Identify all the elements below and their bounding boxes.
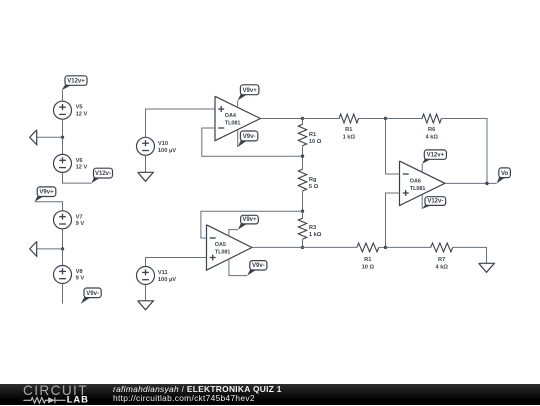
svg-text:V12v-: V12v- bbox=[95, 171, 111, 177]
net flag V12v+ bbox=[422, 150, 446, 164]
junction bbox=[384, 117, 387, 120]
junction bbox=[301, 155, 304, 158]
wire bbox=[62, 284, 64, 304]
op-amp OA6 bbox=[400, 161, 445, 205]
svg-text:100 µV: 100 µV bbox=[158, 277, 176, 283]
wire bbox=[62, 229, 64, 249]
voltage source V8 bbox=[54, 266, 85, 284]
wire bbox=[302, 146, 304, 156]
svg-text:OA6: OA6 bbox=[410, 179, 421, 185]
voltage source V7 bbox=[54, 211, 85, 229]
op-amp OA4 bbox=[215, 96, 260, 140]
svg-text:V12v+: V12v+ bbox=[67, 79, 85, 85]
wire bbox=[386, 246, 431, 248]
svg-text:R1: R1 bbox=[309, 132, 316, 138]
junction bbox=[301, 246, 304, 249]
svg-text:V11: V11 bbox=[158, 270, 168, 276]
voltage source V5 bbox=[54, 101, 88, 119]
voltage source V11 bbox=[137, 267, 177, 285]
svg-text:1 kΩ: 1 kΩ bbox=[309, 232, 322, 238]
net flag V9v- bbox=[247, 261, 267, 276]
svg-text:R1: R1 bbox=[364, 257, 371, 263]
svg-text:V9v-: V9v- bbox=[86, 291, 99, 297]
wire bbox=[37, 136, 63, 138]
wire bbox=[421, 195, 423, 209]
wire bbox=[237, 101, 239, 108]
wire bbox=[62, 119, 64, 137]
junction bbox=[384, 246, 387, 249]
ground bbox=[30, 130, 37, 145]
svg-text:LAB: LAB bbox=[67, 393, 89, 404]
junction bbox=[61, 136, 64, 139]
wire bbox=[453, 247, 487, 263]
svg-text:R1: R1 bbox=[345, 127, 352, 133]
wire bbox=[62, 137, 64, 154]
wire bbox=[386, 119, 400, 175]
svg-text:OA5: OA5 bbox=[215, 242, 226, 248]
svg-text:TL081: TL081 bbox=[215, 249, 231, 255]
wire bbox=[229, 230, 238, 237]
credit line bbox=[113, 385, 282, 404]
svg-text:V9v+: V9v+ bbox=[242, 217, 257, 223]
voltage source V6 bbox=[54, 154, 88, 172]
net flag V12v+ bbox=[62, 76, 88, 91]
resistor R7 bbox=[431, 243, 453, 271]
svg-text:V10: V10 bbox=[158, 141, 168, 147]
resistor R1 10 bottom bbox=[357, 243, 379, 271]
wire bbox=[386, 118, 423, 120]
wire bbox=[229, 259, 247, 276]
CircuitLab logo bbox=[0, 383, 540, 385]
wire bbox=[303, 246, 357, 248]
svg-text:TL081: TL081 bbox=[225, 120, 241, 126]
wire bbox=[63, 172, 92, 183]
svg-text:Rg: Rg bbox=[309, 177, 317, 183]
ground bbox=[138, 172, 154, 181]
net flag V12v- bbox=[92, 168, 113, 183]
svg-text:R7: R7 bbox=[438, 257, 445, 263]
wire bbox=[441, 119, 487, 184]
wire bbox=[146, 258, 207, 267]
wire bbox=[445, 182, 497, 184]
svg-text:9 V: 9 V bbox=[76, 276, 85, 282]
wire bbox=[201, 211, 303, 238]
svg-text:9 V: 9 V bbox=[76, 221, 85, 227]
junction bbox=[301, 117, 304, 120]
net flag V12v- bbox=[422, 197, 446, 209]
resistor R1 1k bbox=[339, 114, 358, 141]
svg-text:10 Ω: 10 Ω bbox=[309, 139, 322, 145]
net flag V9v+ bbox=[238, 85, 259, 101]
resistor Rg bbox=[298, 169, 318, 191]
junction bbox=[61, 247, 64, 250]
svg-text:V5: V5 bbox=[76, 105, 83, 111]
net flag V9v+ bbox=[35, 187, 56, 202]
svg-text:V7: V7 bbox=[76, 214, 83, 220]
svg-text:V9v-: V9v- bbox=[243, 134, 256, 140]
svg-text:V9v+: V9v+ bbox=[39, 190, 54, 196]
wire bbox=[37, 248, 63, 250]
resistor R1 10 bbox=[298, 124, 322, 146]
op-amp OA5 bbox=[207, 225, 252, 270]
wire bbox=[237, 130, 239, 147]
wire bbox=[260, 118, 302, 120]
wire bbox=[302, 239, 304, 247]
svg-text:R6: R6 bbox=[428, 127, 435, 133]
svg-text:V9v-: V9v- bbox=[252, 263, 265, 269]
svg-text:4 kΩ: 4 kΩ bbox=[435, 265, 448, 271]
svg-text:V6: V6 bbox=[76, 158, 83, 164]
resistor R6 bbox=[422, 114, 441, 141]
svg-text:OA4: OA4 bbox=[225, 113, 236, 119]
svg-text:V9v+: V9v+ bbox=[243, 88, 258, 94]
wire bbox=[359, 118, 386, 120]
wire bbox=[145, 285, 147, 301]
wire bbox=[62, 249, 64, 266]
svg-text:12 V: 12 V bbox=[76, 165, 88, 171]
svg-text:12 V: 12 V bbox=[76, 111, 88, 117]
svg-text:V12v+: V12v+ bbox=[427, 153, 445, 159]
svg-text:Vo: Vo bbox=[501, 171, 509, 177]
wire bbox=[302, 156, 304, 169]
svg-text:5 Ω: 5 Ω bbox=[309, 184, 319, 190]
net flag V9v+ bbox=[238, 215, 258, 229]
net flag V9v- bbox=[81, 288, 101, 304]
svg-text:100 µV: 100 µV bbox=[158, 148, 176, 154]
wire bbox=[145, 155, 147, 172]
wire bbox=[35, 202, 63, 211]
ground bbox=[138, 301, 154, 310]
ground bbox=[479, 263, 495, 272]
wire bbox=[146, 109, 216, 137]
wire bbox=[302, 211, 304, 218]
wire bbox=[303, 118, 340, 120]
svg-text:V8: V8 bbox=[76, 269, 83, 275]
junction bbox=[301, 210, 304, 213]
wire bbox=[379, 246, 386, 248]
svg-text:TL081: TL081 bbox=[410, 186, 426, 192]
net flag V9v- bbox=[238, 131, 258, 147]
voltage source V10 bbox=[137, 137, 177, 155]
svg-text:1 kΩ: 1 kΩ bbox=[343, 135, 356, 141]
wire bbox=[386, 193, 400, 247]
wire bbox=[252, 246, 303, 248]
svg-text:10 Ω: 10 Ω bbox=[362, 265, 375, 271]
ground bbox=[30, 242, 37, 257]
wire bbox=[421, 164, 423, 172]
svg-text:4 kΩ: 4 kΩ bbox=[425, 135, 438, 141]
wire bbox=[302, 119, 304, 125]
svg-text:V12v-: V12v- bbox=[427, 199, 443, 205]
wire bbox=[302, 191, 304, 211]
wire bbox=[62, 90, 64, 101]
junction bbox=[485, 182, 488, 185]
wire bbox=[202, 128, 303, 156]
net flag Vo bbox=[497, 168, 511, 184]
svg-text:R3: R3 bbox=[309, 225, 316, 231]
resistor R3 bbox=[298, 218, 322, 239]
